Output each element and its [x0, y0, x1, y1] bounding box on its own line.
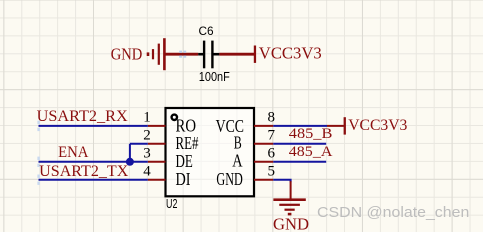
- junction: [126, 158, 134, 166]
- wire pin8 to VCC3V3: [273, 125, 327, 127]
- svg-text:6: 6: [268, 146, 276, 162]
- svg-text:DE: DE: [176, 151, 193, 171]
- pin 8: [254, 125, 273, 127]
- svg-text:GND: GND: [216, 169, 242, 189]
- svg-text:4: 4: [143, 163, 151, 179]
- svg-text:GND: GND: [273, 214, 309, 232]
- svg-text:VCC3V3: VCC3V3: [348, 117, 407, 134]
- wire-end marks: [37, 121, 39, 185]
- svg-text:3: 3: [143, 146, 151, 162]
- svg-text:A: A: [232, 151, 243, 171]
- pin 1: [148, 125, 166, 127]
- wire USART2_RX: [39, 125, 148, 127]
- svg-text:USART2_RX: USART2_RX: [37, 108, 129, 125]
- svg-text:GND: GND: [111, 45, 143, 64]
- svg-text:1: 1: [143, 110, 151, 126]
- svg-text:ENA: ENA: [58, 144, 89, 161]
- wire ENA: [39, 161, 148, 163]
- pin 4: [148, 179, 166, 181]
- ground GND (top-left power port): [111, 38, 166, 70]
- pin 6: [254, 161, 273, 163]
- svg-text:5: 5: [268, 163, 276, 179]
- wire C6 to VCC3V3: [219, 53, 254, 56]
- svg-text:C6: C6: [199, 24, 214, 38]
- wire 485_A: [273, 161, 326, 163]
- wire 485_B: [273, 143, 326, 145]
- wire pin5 to ground: [273, 180, 290, 183]
- wire GND to C6: [165, 53, 198, 56]
- power port VCC3V3 (top): [254, 44, 322, 63]
- pin 5: [254, 179, 273, 181]
- ground GND (bottom power port): [273, 181, 309, 233]
- svg-text:CSDN @nolate_chen: CSDN @nolate_chen: [317, 204, 469, 221]
- svg-text:485_B: 485_B: [289, 126, 333, 142]
- svg-text:485_A: 485_A: [289, 144, 333, 160]
- pin 3: [148, 161, 166, 163]
- power port VCC3V3 (right): [327, 117, 407, 134]
- svg-text:U2: U2: [166, 196, 177, 211]
- wire USART2_TX: [39, 179, 148, 181]
- svg-text:USART2_TX: USART2_TX: [39, 163, 129, 180]
- wire ENA to pin2 (vertical): [129, 144, 131, 162]
- wire to pin 2: [130, 143, 148, 145]
- polarity dot: [172, 115, 177, 120]
- op-amp/transceiver U2 body: [166, 108, 255, 196]
- svg-text:100nF: 100nF: [199, 69, 230, 84]
- svg-text:8: 8: [268, 110, 276, 126]
- svg-text:7: 7: [268, 128, 276, 144]
- capacitor C6: [198, 41, 219, 69]
- svg-text:VCC3V3: VCC3V3: [259, 44, 322, 63]
- svg-text:B: B: [234, 133, 242, 153]
- svg-text:DI: DI: [176, 169, 191, 189]
- pin 2: [148, 143, 166, 145]
- svg-text:2: 2: [143, 128, 151, 144]
- compile-mask marks: [179, 51, 186, 58]
- pin 7: [254, 143, 273, 145]
